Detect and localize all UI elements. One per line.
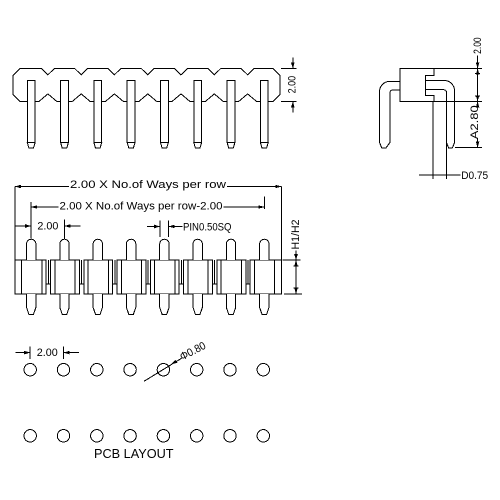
svg-text:2.00: 2.00	[37, 220, 58, 232]
pad hole row1 #6	[191, 364, 203, 376]
view C dim row 1: 2.00 X No.of Ways per row	[14, 187, 16, 261]
svg-text:2.00: 2.00	[37, 347, 58, 359]
view C top pin 3	[93, 239, 102, 260]
pad hole row2 #6	[191, 430, 203, 442]
view B bent pin left	[380, 81, 401, 148]
view C bottom pin 2	[60, 294, 69, 315]
view B dimension A2.80 line and arrows	[477, 101, 479, 106]
view C label PIN0.50SQ with extension ticks	[159, 221, 161, 238]
view C dim H1/H2 leader and arrows	[295, 251, 297, 261]
pad hole row1 #4	[124, 364, 136, 376]
view A pin 7	[227, 80, 235, 142]
view A dimension 2.00 leader lines and arrows	[292, 58, 294, 69]
view A pin 1	[27, 80, 35, 142]
view C dim H1/H2 extension lines	[283, 259, 301, 261]
pad hole row1 #8	[257, 364, 269, 376]
view C body cell 7	[217, 260, 246, 294]
pad hole row1 #2	[57, 364, 69, 376]
view B straight pin (vertical, D0.75)	[432, 101, 434, 179]
view C bottom pin 4	[126, 294, 135, 315]
view C crack between cells 4-5	[147, 260, 149, 284]
pad hole row2 #8	[257, 430, 269, 442]
view C body cell 1	[15, 260, 46, 294]
view D dim 2.00	[29, 347, 31, 359]
view C top pin 4	[126, 239, 135, 260]
view C bottom pin 1	[27, 294, 36, 315]
svg-text:PCB LAYOUT: PCB LAYOUT	[94, 447, 174, 461]
view C body cell 8	[250, 260, 281, 294]
view C body cell 3	[84, 260, 113, 294]
view B: right-angle header body outline	[400, 69, 434, 102]
view A pin 8	[260, 80, 268, 142]
view C bottom pin 7	[226, 294, 235, 315]
pad hole row2 #2	[57, 430, 69, 442]
view C body cell 6	[184, 260, 213, 294]
pad hole row2 #5	[157, 430, 169, 442]
svg-text:PIN0.50SQ: PIN0.50SQ	[183, 221, 232, 233]
view B extension line at pin tips	[455, 147, 482, 149]
svg-text:2.00 X No.of Ways per row-2.00: 2.00 X No.of Ways per row-2.00	[60, 200, 223, 212]
pad hole row2 #3	[91, 430, 103, 442]
pad hole row2 #7	[224, 430, 236, 442]
view B leader D0.75	[419, 174, 461, 176]
view A pin 6	[194, 80, 202, 142]
view C dim row 2: 2.00 X No.of Ways per row-2.00	[30, 202, 32, 239]
view C body cell 2	[51, 260, 80, 294]
view A pin 5	[161, 80, 169, 142]
svg-text:A2.80: A2.80	[469, 105, 481, 139]
pad hole row1 #1	[24, 364, 36, 376]
view A pin 4	[127, 80, 135, 142]
svg-text:2.00: 2.00	[472, 37, 484, 54]
pad hole row1 #7	[224, 364, 236, 376]
view C crack between cells 7-8	[247, 260, 249, 284]
view C top pin 7	[226, 239, 235, 260]
view C body cell 5	[150, 260, 179, 294]
svg-text:2.00: 2.00	[286, 76, 298, 94]
pad hole row2 #1	[24, 430, 36, 442]
view C crack between cells 2-3	[81, 260, 83, 284]
pad hole row1 #5	[157, 364, 169, 376]
view A: header side view body outline	[13, 69, 280, 102]
pad hole row2 #4	[124, 430, 136, 442]
view B dimension 2.00 leader and arrows	[477, 56, 479, 69]
view C body cell 4	[117, 260, 146, 294]
view B bent pin right	[426, 80, 455, 147]
view C top pin 5	[160, 239, 169, 260]
pad hole row1 #3	[91, 364, 103, 376]
view D leader for hole diameter	[144, 358, 182, 381]
svg-text:D0.75: D0.75	[461, 170, 488, 182]
svg-text:2.00 X No.of Ways per row: 2.00 X No.of Ways per row	[70, 179, 226, 191]
svg-text:H1/H2: H1/H2	[290, 220, 302, 250]
view C crack between cells 5-6	[180, 260, 182, 284]
view C top pin 2	[60, 239, 69, 260]
view A pin 3	[94, 80, 102, 142]
svg-text:Φ0.80: Φ0.80	[178, 340, 208, 363]
view B dimension 2.00 extension lines	[434, 68, 482, 70]
view C bottom pin 3	[93, 294, 102, 315]
view A dimension 2.00 (body height) extension lines	[281, 68, 297, 70]
view C top pin 6	[193, 239, 202, 260]
view C dim 2.00 pitch	[64, 220, 66, 239]
view C crack between cells 3-4	[114, 260, 116, 284]
view C bottom pin 8	[260, 294, 269, 315]
view C bottom pin 5	[160, 294, 169, 315]
view C bottom pin 6	[193, 294, 202, 315]
view C crack between cells 1-2	[47, 260, 49, 284]
view A pin 2	[61, 80, 69, 142]
view C top pin 1	[27, 239, 36, 260]
view C crack between cells 6-7	[214, 260, 216, 284]
view C top pin 8	[260, 239, 269, 260]
